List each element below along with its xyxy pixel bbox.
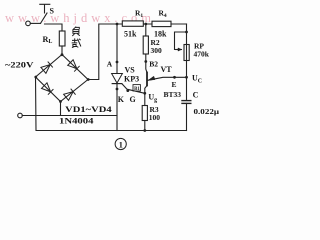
svg-text:300: 300 xyxy=(151,46,163,55)
svg-text:R4: R4 xyxy=(159,8,167,18)
svg-text:S: S xyxy=(50,7,55,16)
svg-text:E: E xyxy=(172,80,177,89)
svg-text:BT33: BT33 xyxy=(164,90,182,99)
svg-text:UC: UC xyxy=(192,74,202,85)
svg-text:0.022μ: 0.022μ xyxy=(194,107,220,116)
svg-text:Ug: Ug xyxy=(148,92,157,103)
svg-text:C: C xyxy=(193,90,199,99)
svg-text:~220V: ~220V xyxy=(5,60,35,70)
svg-text:B1: B1 xyxy=(134,87,140,92)
svg-text:R1: R1 xyxy=(135,8,143,18)
svg-text:K: K xyxy=(118,95,125,104)
svg-text:100: 100 xyxy=(149,113,161,122)
svg-text:470k: 470k xyxy=(194,50,210,59)
svg-text:G: G xyxy=(130,95,136,104)
svg-text:1: 1 xyxy=(119,141,123,150)
svg-text:B2: B2 xyxy=(149,60,158,69)
svg-text:VD1~VD4: VD1~VD4 xyxy=(65,105,112,114)
svg-text:VS: VS xyxy=(125,65,136,74)
svg-text:KP3: KP3 xyxy=(124,75,139,84)
svg-text:VT: VT xyxy=(161,65,173,74)
svg-text:A: A xyxy=(107,59,113,68)
svg-text:1N4004: 1N4004 xyxy=(59,117,94,126)
svg-text:51k: 51k xyxy=(124,29,137,38)
svg-text:RL: RL xyxy=(43,35,53,45)
